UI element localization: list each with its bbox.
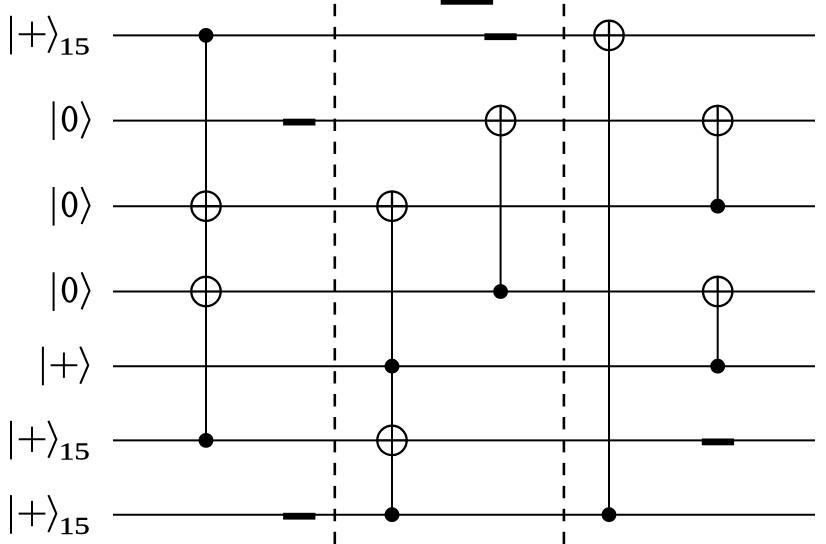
wire q4	[113, 291, 815, 293]
svg-text:15: 15	[59, 438, 90, 465]
CNOT target q2 column E	[702, 105, 734, 136]
node label ket-plus-15 q6	[11, 421, 90, 465]
fault bar q2	[283, 119, 315, 126]
node label ket-0 q3	[54, 187, 90, 226]
wire q6	[113, 439, 815, 441]
svg-text:15: 15	[59, 512, 90, 539]
svg-text:15: 15	[59, 33, 90, 60]
control dot q7 column D	[602, 507, 617, 522]
CNOT target q2 column C	[485, 105, 517, 136]
CNOT target q4 column A	[190, 277, 222, 306]
wire gate column C connector	[500, 121, 502, 292]
wire gate column E upper connector	[717, 121, 719, 207]
control dot q6 column A	[199, 433, 214, 448]
barrier dashed line 1	[333, 4, 336, 544]
wire q1	[113, 34, 815, 36]
CNOT target q1 column D	[593, 20, 625, 51]
node label ket-0 q4	[54, 272, 90, 311]
wire q3	[113, 205, 815, 207]
control dot q7 column B	[385, 507, 400, 522]
wire gate column A connector	[205, 35, 207, 440]
node label ket-plus-15 q1	[11, 16, 90, 60]
node label ket-0 q2	[54, 101, 90, 140]
fault bar q7	[283, 513, 315, 520]
control dot q1 column A	[199, 28, 214, 43]
wire q2	[113, 120, 815, 122]
wire gate column E lower connector	[717, 292, 719, 367]
barrier dashed line 2	[563, 4, 566, 544]
control dot q3 column E	[710, 199, 725, 214]
wire gate column D connector	[608, 35, 610, 514]
CNOT target q3 column B	[376, 190, 408, 221]
fault bar q1	[484, 33, 516, 40]
CNOT target q6 column B	[376, 426, 408, 455]
CNOT target q3 column A	[190, 192, 222, 221]
control dot q5 column B	[385, 359, 400, 374]
wire gate column B connector	[391, 206, 393, 515]
control dot q5 column E	[710, 359, 725, 374]
wire q5	[113, 365, 815, 367]
CNOT target q4 column E	[702, 276, 734, 307]
node label ket-plus q5	[43, 347, 88, 386]
control dot q4 column C	[493, 284, 508, 299]
fault bar q6	[702, 439, 734, 446]
fault bar top edge	[441, 0, 493, 5]
wire q7	[113, 514, 815, 516]
node label ket-plus-15 q7	[11, 495, 90, 539]
